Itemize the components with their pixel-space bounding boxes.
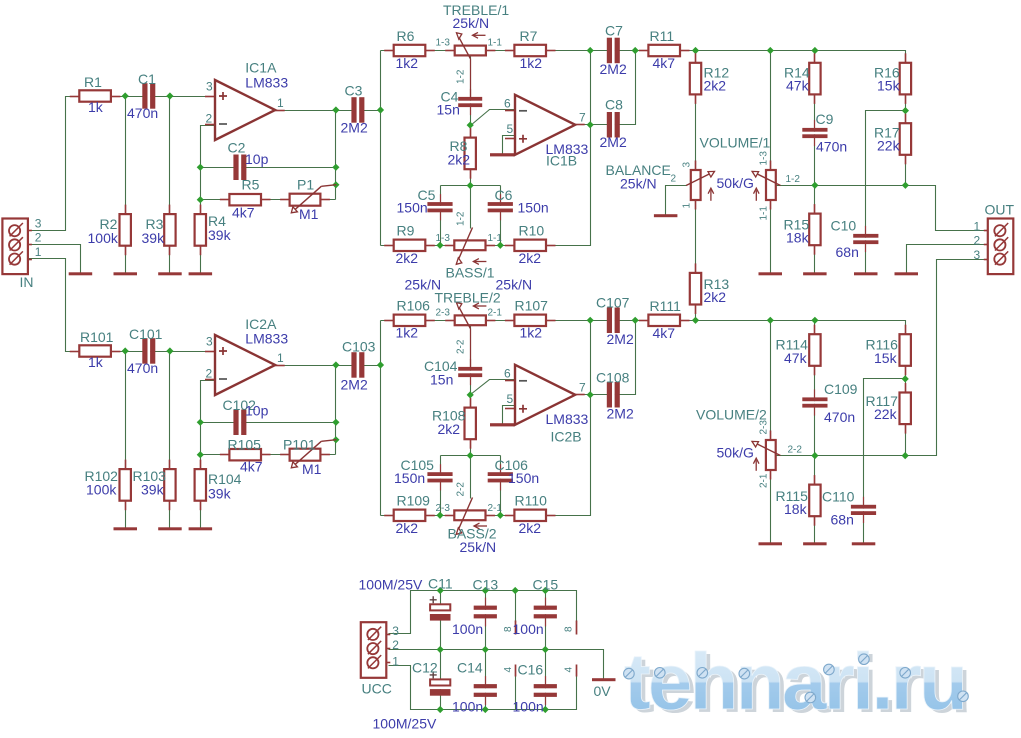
svg-text:C2: C2 xyxy=(228,140,246,156)
svg-text:C103: C103 xyxy=(342,339,376,355)
svg-text:6: 6 xyxy=(504,97,511,111)
svg-text:R6: R6 xyxy=(397,28,415,44)
svg-text:1-3: 1-3 xyxy=(436,38,451,49)
svg-text:P101: P101 xyxy=(283,437,316,453)
svg-text:1-1: 1-1 xyxy=(488,233,503,244)
svg-text:C110: C110 xyxy=(822,489,855,505)
svg-text:4k7: 4k7 xyxy=(232,205,255,221)
svg-text:2k2: 2k2 xyxy=(438,421,461,437)
svg-text:10p: 10p xyxy=(245,403,269,419)
svg-text:R109: R109 xyxy=(397,493,431,509)
svg-text:470n: 470n xyxy=(127,105,158,121)
svg-text:1k: 1k xyxy=(88,354,104,370)
svg-text:C12: C12 xyxy=(412,660,438,676)
svg-text:2: 2 xyxy=(392,638,399,652)
svg-text:UCC: UCC xyxy=(362,681,392,697)
svg-text:2-3: 2-3 xyxy=(436,503,451,514)
svg-text:3: 3 xyxy=(682,162,693,168)
svg-text:2-1: 2-1 xyxy=(759,473,770,488)
svg-text:4k7: 4k7 xyxy=(240,459,263,475)
svg-text:R5: R5 xyxy=(242,177,260,193)
svg-text:C16: C16 xyxy=(518,662,544,678)
svg-text:2k2: 2k2 xyxy=(704,289,727,305)
svg-text:50k/G: 50k/G xyxy=(717,445,754,461)
svg-text:100M/25V: 100M/25V xyxy=(359,577,423,593)
svg-text:18k: 18k xyxy=(784,501,808,517)
svg-text:1-2: 1-2 xyxy=(456,211,467,226)
svg-text:1: 1 xyxy=(682,203,693,209)
svg-text:15n: 15n xyxy=(437,102,460,118)
svg-text:150n: 150n xyxy=(394,470,425,486)
svg-text:VOLUME/1: VOLUME/1 xyxy=(700,135,771,151)
svg-text:1-3: 1-3 xyxy=(436,233,451,244)
svg-text:2k2: 2k2 xyxy=(519,520,542,536)
svg-text:3: 3 xyxy=(974,248,981,262)
svg-text:C8: C8 xyxy=(605,97,623,113)
svg-text:2M2: 2M2 xyxy=(600,61,627,77)
svg-text:LM833: LM833 xyxy=(546,411,589,427)
svg-text:M1: M1 xyxy=(302,461,322,477)
svg-text:2k2: 2k2 xyxy=(396,520,419,536)
svg-text:1-1: 1-1 xyxy=(759,206,770,221)
svg-text:4k7: 4k7 xyxy=(653,325,676,341)
svg-text:OUT: OUT xyxy=(985,202,1015,218)
svg-text:25k/N: 25k/N xyxy=(496,277,533,293)
svg-text:100n: 100n xyxy=(513,621,544,637)
svg-text:C15: C15 xyxy=(533,577,559,593)
svg-text:2k2: 2k2 xyxy=(396,250,419,266)
svg-text:2: 2 xyxy=(974,234,981,248)
svg-text:68n: 68n xyxy=(836,244,859,260)
svg-text:39k: 39k xyxy=(141,482,165,498)
svg-text:2M2: 2M2 xyxy=(600,134,627,150)
svg-text:LM833: LM833 xyxy=(245,75,288,91)
svg-text:47k: 47k xyxy=(784,350,808,366)
svg-text:2k2: 2k2 xyxy=(519,250,542,266)
svg-text:1-3: 1-3 xyxy=(759,151,770,166)
svg-text:R107: R107 xyxy=(515,298,549,314)
svg-text:3: 3 xyxy=(206,80,213,94)
svg-text:C11: C11 xyxy=(428,576,453,592)
svg-text:C107: C107 xyxy=(596,295,630,311)
svg-text:470n: 470n xyxy=(824,409,855,425)
svg-text:R111: R111 xyxy=(650,298,682,314)
svg-text:IC1B: IC1B xyxy=(546,153,577,169)
svg-text:2: 2 xyxy=(35,231,42,245)
svg-text:100n: 100n xyxy=(513,699,544,715)
svg-text:1: 1 xyxy=(277,351,284,365)
svg-text:15k: 15k xyxy=(874,350,898,366)
svg-text:IC2B: IC2B xyxy=(551,429,582,445)
svg-text:2k2: 2k2 xyxy=(704,78,727,94)
svg-text:2M2: 2M2 xyxy=(341,120,368,136)
svg-text:2: 2 xyxy=(206,112,213,126)
svg-text:VOLUME/2: VOLUME/2 xyxy=(696,407,767,423)
svg-text:R9: R9 xyxy=(397,223,415,239)
svg-text:4: 4 xyxy=(503,667,514,673)
svg-text:2: 2 xyxy=(206,367,213,381)
svg-text:2-1: 2-1 xyxy=(488,503,503,514)
svg-text:4k7: 4k7 xyxy=(653,55,676,71)
svg-text:2M2: 2M2 xyxy=(607,406,634,422)
svg-text:8: 8 xyxy=(564,626,575,632)
svg-text:470n: 470n xyxy=(127,360,158,376)
svg-text:1k2: 1k2 xyxy=(520,325,543,341)
svg-text:68n: 68n xyxy=(831,512,854,528)
svg-text:BASS/1: BASS/1 xyxy=(446,265,495,281)
svg-text:15k: 15k xyxy=(877,78,901,94)
svg-text:39k: 39k xyxy=(208,486,232,502)
svg-text:C101: C101 xyxy=(129,326,163,342)
svg-text:C108: C108 xyxy=(596,370,630,386)
svg-text:P1: P1 xyxy=(297,177,314,193)
svg-text:C9: C9 xyxy=(816,111,834,127)
svg-text:25k/N: 25k/N xyxy=(460,539,497,555)
svg-text:2-1: 2-1 xyxy=(488,308,503,319)
svg-text:R106: R106 xyxy=(397,298,431,314)
svg-text:1k2: 1k2 xyxy=(396,55,419,71)
svg-text:C3: C3 xyxy=(345,83,363,99)
svg-text:10p: 10p xyxy=(245,151,269,167)
svg-text:25k/N: 25k/N xyxy=(620,176,657,192)
svg-text:1-2: 1-2 xyxy=(786,174,801,185)
svg-text:2M2: 2M2 xyxy=(607,331,634,347)
svg-text:C7: C7 xyxy=(605,23,623,39)
svg-text:7: 7 xyxy=(579,111,586,125)
svg-text:IN: IN xyxy=(20,274,34,290)
svg-text:2k2: 2k2 xyxy=(448,152,471,168)
svg-text:TREBLE/2: TREBLE/2 xyxy=(435,290,501,306)
svg-text:100M/25V: 100M/25V xyxy=(373,716,437,732)
svg-text:1k2: 1k2 xyxy=(396,325,419,341)
svg-text:25k/N: 25k/N xyxy=(453,15,490,31)
svg-text:5: 5 xyxy=(507,392,514,406)
svg-text:22k: 22k xyxy=(877,138,901,154)
svg-text:2-2: 2-2 xyxy=(788,445,803,456)
svg-text:150n: 150n xyxy=(518,200,549,216)
svg-text:100k: 100k xyxy=(86,482,117,498)
svg-text:100n: 100n xyxy=(452,621,483,637)
svg-text:2-2: 2-2 xyxy=(456,482,467,497)
svg-text:2-3: 2-3 xyxy=(436,308,451,319)
svg-text:tehnari.ru: tehnari.ru xyxy=(624,637,965,726)
svg-text:C1: C1 xyxy=(138,71,156,87)
svg-text:47k: 47k xyxy=(786,78,810,94)
svg-text:R101: R101 xyxy=(80,329,114,345)
svg-text:C10: C10 xyxy=(831,218,857,234)
svg-text:5: 5 xyxy=(507,122,514,136)
svg-text:R105: R105 xyxy=(228,437,262,453)
svg-text:39k: 39k xyxy=(208,227,232,243)
svg-text:3: 3 xyxy=(206,335,213,349)
svg-text:R110: R110 xyxy=(515,493,548,509)
svg-text:6: 6 xyxy=(504,367,511,381)
svg-text:C6: C6 xyxy=(495,187,513,203)
svg-text:1: 1 xyxy=(392,654,399,668)
svg-text:R11: R11 xyxy=(650,28,675,44)
svg-text:C13: C13 xyxy=(473,577,499,593)
svg-text:150n: 150n xyxy=(508,470,539,486)
svg-text:1k: 1k xyxy=(88,99,104,115)
svg-text:8: 8 xyxy=(503,626,514,632)
svg-text:LM833: LM833 xyxy=(245,331,288,347)
svg-text:100k: 100k xyxy=(88,230,119,246)
svg-text:C14: C14 xyxy=(457,660,483,676)
svg-text:1: 1 xyxy=(974,220,981,234)
svg-text:150n: 150n xyxy=(397,200,428,216)
svg-text:3: 3 xyxy=(35,217,42,231)
svg-text:100n: 100n xyxy=(452,699,483,715)
svg-text:IC1A: IC1A xyxy=(245,60,277,76)
svg-text:3: 3 xyxy=(392,624,399,638)
svg-text:C109: C109 xyxy=(824,381,858,397)
svg-text:7: 7 xyxy=(579,381,586,395)
svg-text:1-1: 1-1 xyxy=(488,38,503,49)
svg-text:15n: 15n xyxy=(430,372,453,388)
svg-text:470n: 470n xyxy=(816,139,847,155)
svg-text:2M2: 2M2 xyxy=(341,377,368,393)
svg-text:18k: 18k xyxy=(786,230,810,246)
svg-text:1: 1 xyxy=(277,96,284,110)
svg-text:R1: R1 xyxy=(84,74,102,90)
svg-text:R7: R7 xyxy=(520,28,538,44)
svg-text:39k: 39k xyxy=(142,230,166,246)
svg-text:M1: M1 xyxy=(299,206,319,222)
svg-text:0V: 0V xyxy=(594,683,612,699)
svg-text:4: 4 xyxy=(564,667,575,673)
svg-text:1k2: 1k2 xyxy=(520,55,543,71)
svg-text:2-2: 2-2 xyxy=(456,339,467,354)
svg-text:1: 1 xyxy=(35,245,42,259)
svg-text:2: 2 xyxy=(671,174,677,185)
svg-text:R10: R10 xyxy=(519,223,545,239)
svg-text:1-2: 1-2 xyxy=(456,69,467,84)
svg-text:50k/G: 50k/G xyxy=(717,175,754,191)
svg-text:22k: 22k xyxy=(874,406,898,422)
svg-text:2-3: 2-3 xyxy=(759,420,770,435)
